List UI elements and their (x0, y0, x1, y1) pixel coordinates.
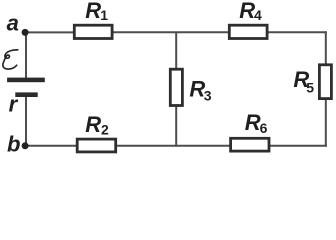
resistor R6 (box) (231, 138, 269, 151)
svg-text:6: 6 (260, 120, 268, 136)
node a (junction dot) (22, 29, 29, 36)
svg-text:3: 3 (204, 88, 212, 104)
svg-text:R: R (245, 110, 261, 135)
wire: left vertical from node a down to battery top plate (25, 32, 27, 78)
svg-text:5: 5 (306, 80, 314, 96)
resistor R3 (box) (170, 69, 182, 105)
wire: R3 branch vertical from R3 to bottom wire (175, 106, 177, 147)
battery top plate (long, emf) (7, 78, 45, 83)
battery bottom plate (short) (15, 92, 37, 97)
svg-text:R: R (85, 112, 101, 137)
resistor R5 (box) (319, 65, 331, 99)
wire: top wire from node a to R1 (25, 31, 74, 33)
wire: left vertical from battery bottom plate down to node b (25, 96, 27, 146)
wire: bottom wire from R2 to node b (25, 145, 77, 147)
svg-text:1: 1 (100, 7, 108, 23)
wire: bottom wire from bottom-right corner to R6 (270, 145, 327, 147)
resistor R1 (box) (74, 25, 112, 38)
resistor R2 (box) (77, 139, 116, 152)
wire: top wire from R1 to R4 (113, 31, 230, 33)
svg-text:R: R (85, 0, 101, 23)
svg-text:4: 4 (254, 7, 262, 23)
wire: right vertical from R5 down to bottom-right corner (325, 99, 327, 147)
resistor R4 (box) (229, 25, 267, 38)
node b (junction dot) (22, 142, 29, 149)
svg-text:r: r (9, 92, 19, 117)
svg-text:R: R (239, 0, 255, 23)
wire: right vertical from corner down to R5 (325, 31, 327, 64)
svg-text:2: 2 (101, 121, 109, 137)
svg-text:a: a (7, 10, 19, 35)
svg-text:b: b (7, 132, 20, 157)
label EMF script-E (3, 50, 18, 69)
wire: bottom wire from R6 to R2 (116, 145, 230, 147)
wire: R3 branch vertical from top wire to R3 (175, 31, 177, 69)
wire: top wire from R4 to top-right corner (268, 31, 327, 33)
